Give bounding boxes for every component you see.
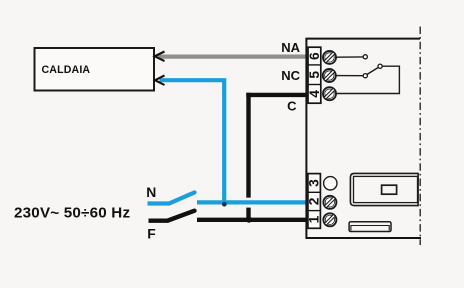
- screw terminal 6: [323, 51, 336, 64]
- svg-text:3: 3: [307, 179, 322, 187]
- svg-text:F: F: [147, 225, 156, 241]
- screw terminal 1: [323, 213, 336, 226]
- wire blue (boiler branch): [160, 80, 225, 203]
- relay contact NC wire: [336, 75, 363, 77]
- wire black mains F (left stub): [149, 218, 169, 222]
- arrowhead gray: [155, 52, 165, 62]
- switch N blade: [170, 192, 195, 203]
- svg-text:NC: NC: [281, 68, 300, 83]
- wire blue mains N (left stub): [148, 201, 171, 205]
- relay common wire to terminal 4: [336, 66, 399, 93]
- terminal strip 6-5-4: [308, 47, 321, 103]
- relay contact NA wire: [336, 56, 363, 58]
- svg-text:4: 4: [307, 90, 322, 98]
- node blue junction: [222, 202, 227, 207]
- switch F blade: [168, 211, 195, 221]
- svg-text:CALDAIA: CALDAIA: [42, 64, 91, 76]
- svg-text:6: 6: [307, 52, 322, 60]
- wire blue N to terminal 2: [197, 200, 308, 204]
- boiler box CALDAIA: [35, 48, 155, 91]
- svg-text:230V~ 50÷60 Hz: 230V~ 50÷60 Hz: [14, 204, 130, 221]
- cut line dash-dot: [419, 27, 421, 246]
- relay contact NA point: [363, 55, 367, 59]
- terminal strip 3-2-1: [308, 174, 321, 229]
- svg-text:2: 2: [307, 197, 322, 205]
- relay contact NC point: [363, 74, 367, 78]
- sensor hole terminal 3: [324, 177, 337, 190]
- wire black C branch horizontal: [246, 93, 308, 97]
- relay switch blade: [367, 67, 378, 74]
- svg-text:C: C: [287, 99, 297, 114]
- wire black C branch vertical upper: [246, 93, 250, 198]
- relay blade pivot point: [378, 64, 382, 68]
- arrowhead blue: [155, 75, 165, 85]
- node black junction: [246, 217, 252, 223]
- svg-text:N: N: [146, 184, 156, 200]
- relay box: [350, 173, 418, 205]
- connector slot: [349, 222, 391, 232]
- wire black F to terminal 1: [197, 218, 308, 222]
- screw terminal 5: [323, 69, 336, 82]
- thermostat outline: [306, 39, 421, 238]
- svg-text:1: 1: [307, 215, 322, 223]
- screw terminal 2: [323, 196, 336, 209]
- svg-text:5: 5: [307, 71, 322, 79]
- screw terminal 4: [323, 87, 336, 100]
- svg-text:NA: NA: [281, 40, 300, 55]
- wire black C branch vertical lower: [246, 208, 250, 220]
- relay window: [382, 185, 397, 194]
- wire gray (NA to boiler): [158, 54, 309, 58]
